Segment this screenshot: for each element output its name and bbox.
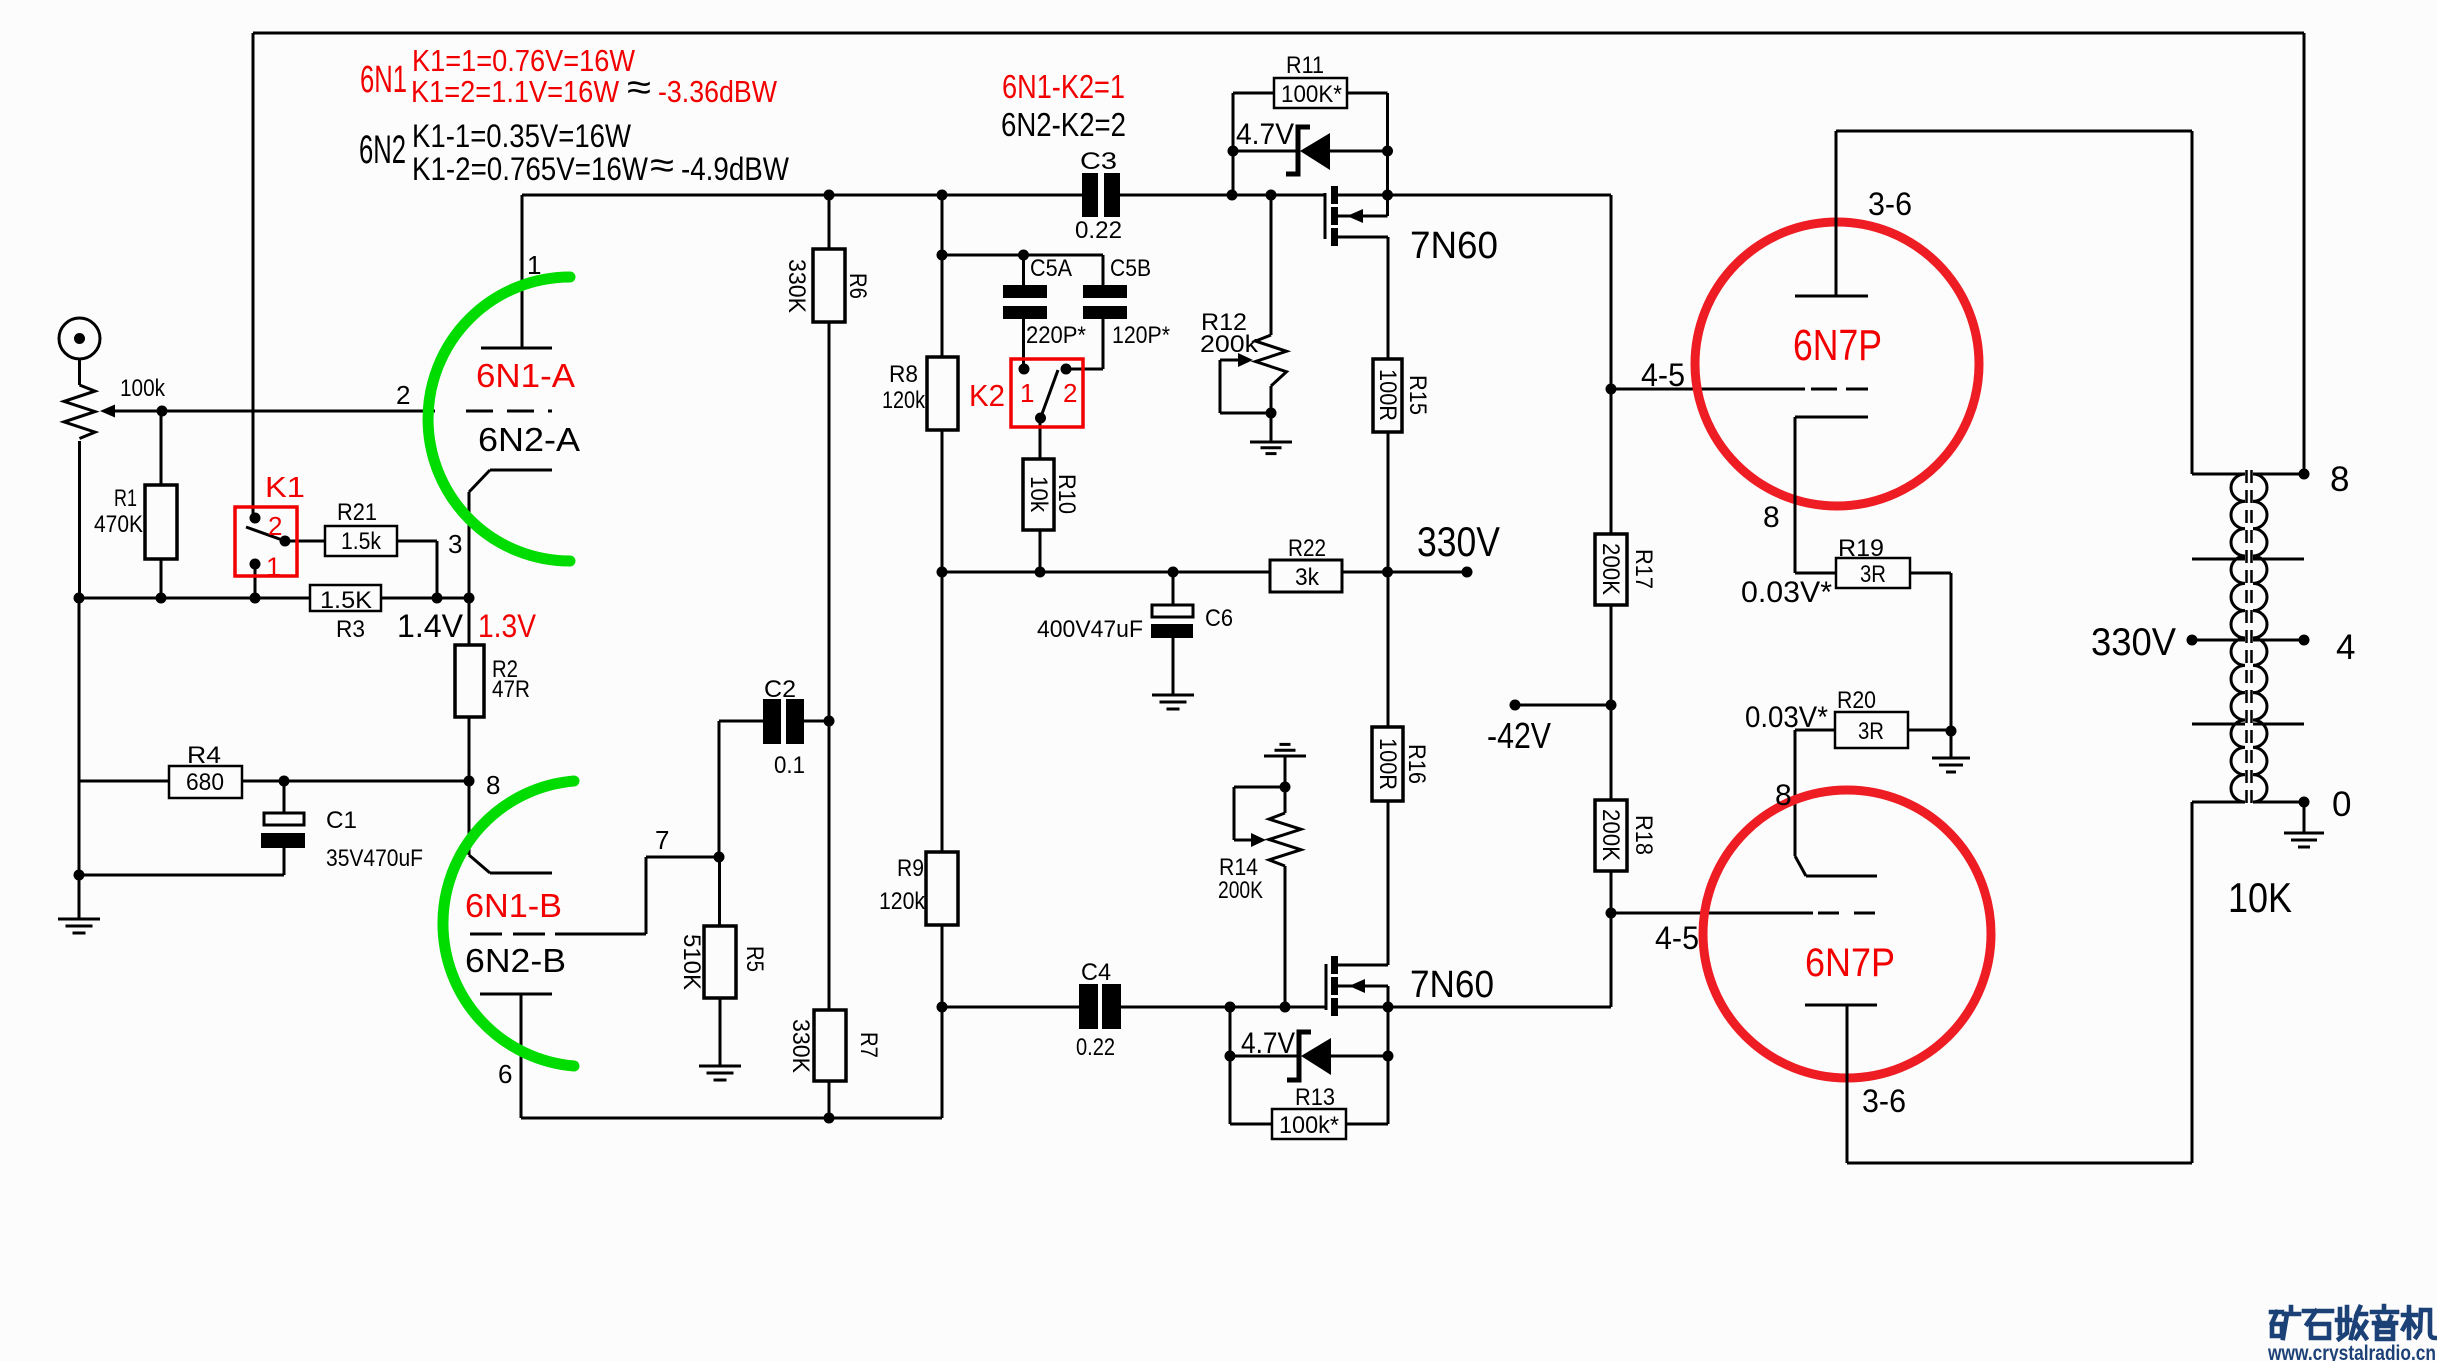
svg-text:100k: 100k <box>120 375 166 402</box>
svg-text:R1: R1 <box>114 485 137 512</box>
svg-text:47R: 47R <box>492 676 530 703</box>
svg-text:4.7V: 4.7V <box>1236 118 1294 151</box>
svg-text:2: 2 <box>1063 378 1077 408</box>
svg-text:120P*: 120P* <box>1112 322 1170 349</box>
svg-text:C6: C6 <box>1205 605 1233 632</box>
svg-text:200K: 200K <box>1218 877 1263 904</box>
svg-text:www.crystalradio.cn: www.crystalradio.cn <box>2267 1342 2436 1361</box>
svg-text:0.03V*: 0.03V* <box>1741 576 1832 609</box>
svg-text:200k: 200k <box>1200 331 1259 358</box>
svg-text:K1-2=0.765V=16W: K1-2=0.765V=16W <box>412 151 649 187</box>
svg-text:6N1: 6N1 <box>360 59 407 101</box>
svg-text:510K: 510K <box>678 934 705 990</box>
svg-text:R16: R16 <box>1403 744 1430 784</box>
svg-text:100R: 100R <box>1374 738 1401 790</box>
svg-text:35V470uF: 35V470uF <box>326 845 423 872</box>
svg-text:4: 4 <box>2336 628 2355 667</box>
svg-text:R3: R3 <box>336 616 365 643</box>
svg-text:330V: 330V <box>2091 621 2176 664</box>
svg-text:8: 8 <box>1775 779 1792 812</box>
svg-text:R20: R20 <box>1837 687 1876 714</box>
svg-text:8: 8 <box>486 770 500 800</box>
svg-text:100k*: 100k* <box>1279 1112 1339 1139</box>
svg-text:3-6: 3-6 <box>1862 1083 1906 1119</box>
svg-text:1.5k: 1.5k <box>341 528 382 555</box>
svg-text:0.22: 0.22 <box>1075 217 1122 244</box>
svg-text:R17: R17 <box>1630 549 1657 589</box>
svg-text:470K: 470K <box>94 511 143 538</box>
svg-text:≈: ≈ <box>627 67 651 109</box>
svg-text:0.1: 0.1 <box>774 752 805 779</box>
svg-text:K1-1=0.35V=16W: K1-1=0.35V=16W <box>412 118 632 154</box>
svg-text:330V: 330V <box>1417 518 1500 565</box>
svg-text:1.3V: 1.3V <box>478 608 537 644</box>
svg-text:R10: R10 <box>1053 474 1080 514</box>
svg-text:10K: 10K <box>2228 874 2292 921</box>
svg-text:6: 6 <box>498 1059 512 1089</box>
svg-text:-3.36dBW: -3.36dBW <box>658 74 778 109</box>
svg-text:220P*: 220P* <box>1026 322 1086 349</box>
svg-text:100K*: 100K* <box>1281 81 1342 108</box>
svg-text:6N1-B: 6N1-B <box>465 887 562 924</box>
svg-text:R22: R22 <box>1288 535 1326 562</box>
svg-text:6N7P: 6N7P <box>1793 321 1882 370</box>
svg-text:C5B: C5B <box>1110 255 1151 282</box>
svg-text:R19: R19 <box>1838 535 1884 562</box>
svg-text:1: 1 <box>1020 378 1034 408</box>
svg-text:K1=2=1.1V=16W: K1=2=1.1V=16W <box>411 74 620 109</box>
svg-text:6N1-K2=1: 6N1-K2=1 <box>1002 68 1125 105</box>
svg-text:1: 1 <box>266 552 281 582</box>
svg-text:3-6: 3-6 <box>1868 186 1912 222</box>
svg-text:-4.9dBW: -4.9dBW <box>681 151 790 187</box>
svg-text:6N2-B: 6N2-B <box>465 942 566 979</box>
svg-text:7N60: 7N60 <box>1410 964 1494 1006</box>
svg-text:R13: R13 <box>1295 1084 1335 1111</box>
svg-text:680: 680 <box>186 769 224 796</box>
svg-text:6N2: 6N2 <box>359 128 406 172</box>
svg-text:K1: K1 <box>265 472 305 504</box>
svg-text:6N1-A: 6N1-A <box>476 357 575 394</box>
svg-text:10k: 10k <box>1025 476 1052 513</box>
svg-text:0: 0 <box>2332 785 2351 824</box>
svg-text:8: 8 <box>2330 460 2349 499</box>
svg-text:7: 7 <box>655 825 669 855</box>
svg-text:2: 2 <box>396 380 410 410</box>
svg-text:6N7P: 6N7P <box>1805 941 1895 985</box>
svg-text:330K: 330K <box>783 259 810 313</box>
svg-text:C4: C4 <box>1081 959 1111 986</box>
svg-text:0.22: 0.22 <box>1076 1034 1115 1061</box>
svg-text:R15: R15 <box>1404 375 1431 415</box>
svg-text:0.03V*: 0.03V* <box>1745 701 1828 734</box>
svg-text:6N2-A: 6N2-A <box>478 421 580 458</box>
svg-text:200K: 200K <box>1597 543 1624 595</box>
svg-text:R11: R11 <box>1286 52 1324 79</box>
svg-text:200K: 200K <box>1597 809 1624 861</box>
svg-text:R6: R6 <box>844 273 871 299</box>
svg-text:R8: R8 <box>889 361 918 388</box>
svg-text:R21: R21 <box>337 499 377 526</box>
svg-text:4-5: 4-5 <box>1641 357 1685 393</box>
svg-text:7N60: 7N60 <box>1410 225 1498 267</box>
svg-text:C3: C3 <box>1080 148 1117 175</box>
svg-text:1.4V: 1.4V <box>397 608 464 644</box>
svg-text:4.7V: 4.7V <box>1241 1027 1295 1060</box>
svg-text:1: 1 <box>527 250 541 280</box>
svg-text:C5A: C5A <box>1030 255 1072 282</box>
svg-text:2: 2 <box>268 511 282 541</box>
svg-text:120k: 120k <box>882 387 926 414</box>
svg-text:3: 3 <box>448 529 462 559</box>
svg-text:4-5: 4-5 <box>1655 920 1699 956</box>
svg-text:R4: R4 <box>187 742 221 769</box>
svg-text:400V47uF: 400V47uF <box>1037 616 1143 643</box>
svg-text:1.5K: 1.5K <box>320 587 372 614</box>
svg-text:3k: 3k <box>1295 564 1320 591</box>
svg-text:K2: K2 <box>969 378 1005 413</box>
svg-text:-42V: -42V <box>1487 715 1551 756</box>
svg-text:R5: R5 <box>741 946 768 972</box>
svg-text:100R: 100R <box>1374 369 1401 421</box>
svg-text:330K: 330K <box>787 1019 814 1073</box>
svg-text:6N2-K2=2: 6N2-K2=2 <box>1001 106 1126 143</box>
svg-text:R18: R18 <box>1630 815 1657 855</box>
svg-text:120k: 120k <box>879 888 926 915</box>
svg-text:8: 8 <box>1763 501 1780 534</box>
svg-text:≈: ≈ <box>650 145 674 187</box>
svg-text:3R: 3R <box>1860 561 1886 588</box>
svg-text:C1: C1 <box>326 807 357 834</box>
svg-text:R9: R9 <box>897 855 924 882</box>
svg-text:C2: C2 <box>764 676 796 703</box>
svg-text:R7: R7 <box>855 1032 882 1058</box>
svg-text:K1=1=0.76V=16W: K1=1=0.76V=16W <box>412 43 636 78</box>
svg-text:3R: 3R <box>1858 718 1884 745</box>
